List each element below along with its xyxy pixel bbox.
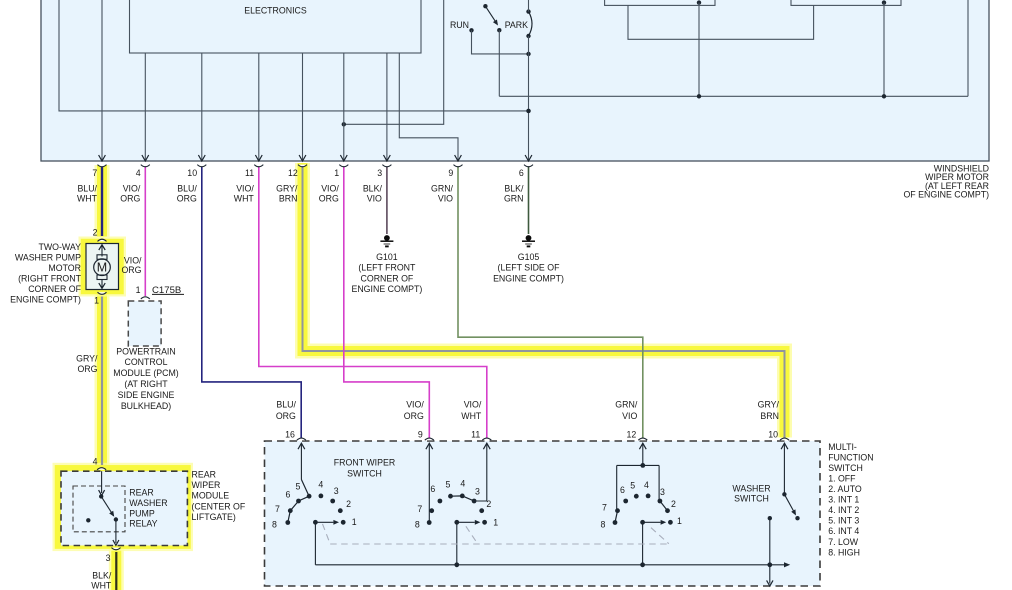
svg-text:4: 4 [136, 168, 141, 178]
svg-text:SWITCH: SWITCH [734, 494, 769, 504]
svg-text:ENGINE COMPT): ENGINE COMPT) [351, 284, 422, 294]
svg-text:SWITCH: SWITCH [347, 469, 382, 479]
svg-text:9: 9 [418, 429, 423, 439]
svg-text:VIO: VIO [438, 193, 453, 203]
svg-text:(LEFT SIDE OF: (LEFT SIDE OF [498, 263, 561, 273]
svg-text:WHT: WHT [234, 193, 255, 203]
svg-text:WASHER: WASHER [732, 483, 770, 493]
svg-text:OF ENGINE COMPT): OF ENGINE COMPT) [903, 190, 989, 200]
svg-text:BLK/: BLK/ [363, 184, 383, 194]
svg-text:VIO/: VIO/ [406, 400, 424, 410]
svg-text:6: 6 [286, 490, 291, 500]
svg-text:PUMP: PUMP [129, 508, 155, 518]
svg-text:7: 7 [275, 504, 280, 514]
svg-text:3: 3 [106, 553, 111, 563]
svg-text:8: 8 [272, 519, 277, 529]
svg-text:LIFTGATE): LIFTGATE) [192, 512, 236, 522]
svg-text:1: 1 [94, 295, 99, 305]
svg-text:1. OFF: 1. OFF [828, 473, 856, 483]
svg-text:10: 10 [768, 429, 778, 439]
svg-text:TWO-WAY: TWO-WAY [38, 242, 81, 252]
svg-text:CORNER OF: CORNER OF [361, 273, 414, 283]
svg-text:ORG: ORG [77, 364, 97, 374]
svg-text:RELAY: RELAY [129, 519, 157, 529]
svg-text:G105: G105 [518, 252, 540, 262]
svg-text:WASHER: WASHER [129, 498, 167, 508]
svg-text:3: 3 [475, 487, 480, 497]
svg-text:6. INT 4: 6. INT 4 [828, 526, 859, 536]
svg-text:6: 6 [430, 484, 435, 494]
svg-text:3. INT 1: 3. INT 1 [828, 495, 859, 505]
svg-text:8: 8 [415, 520, 420, 530]
svg-text:(RIGHT FRONT: (RIGHT FRONT [18, 273, 82, 283]
svg-text:VIO/: VIO/ [236, 184, 254, 194]
svg-text:7: 7 [417, 504, 422, 514]
svg-text:BLK/: BLK/ [504, 184, 524, 194]
svg-text:VIO/: VIO/ [124, 255, 142, 265]
svg-text:5: 5 [630, 480, 635, 490]
svg-text:5. INT 3: 5. INT 3 [828, 516, 859, 526]
svg-text:ORG: ORG [404, 411, 424, 421]
svg-text:2: 2 [93, 228, 98, 238]
svg-text:2: 2 [346, 499, 351, 509]
svg-text:10: 10 [187, 168, 197, 178]
svg-text:CORNER OF: CORNER OF [28, 284, 81, 294]
svg-text:3: 3 [377, 168, 382, 178]
svg-text:1: 1 [334, 168, 339, 178]
svg-text:ORG: ORG [177, 193, 197, 203]
svg-text:1: 1 [493, 518, 498, 528]
svg-text:GRY/: GRY/ [276, 184, 298, 194]
svg-text:8. HIGH: 8. HIGH [828, 547, 860, 557]
svg-text:WASHER PUMP: WASHER PUMP [15, 252, 81, 262]
svg-text:RUN: RUN [450, 20, 469, 30]
svg-text:2: 2 [671, 499, 676, 509]
svg-text:MOTOR: MOTOR [48, 263, 81, 273]
svg-text:1: 1 [136, 285, 141, 295]
svg-text:MODULE (PCM): MODULE (PCM) [113, 368, 179, 378]
svg-text:BULKHEAD): BULKHEAD) [121, 401, 171, 411]
svg-text:G101: G101 [376, 252, 398, 262]
svg-text:ORG: ORG [121, 265, 141, 275]
svg-text:3: 3 [334, 486, 339, 496]
svg-text:ELECTRONICS: ELECTRONICS [244, 6, 307, 16]
svg-text:7: 7 [602, 503, 607, 513]
svg-text:ENGINE COMPT): ENGINE COMPT) [10, 295, 81, 305]
svg-text:11: 11 [245, 168, 254, 178]
svg-text:SIDE ENGINE: SIDE ENGINE [118, 390, 175, 400]
svg-text:WHT: WHT [461, 411, 482, 421]
svg-text:12: 12 [288, 168, 298, 178]
svg-text:(AT RIGHT: (AT RIGHT [124, 379, 168, 389]
svg-text:GRY/: GRY/ [758, 400, 780, 410]
svg-text:2. AUTO: 2. AUTO [828, 484, 862, 494]
svg-text:VIO/: VIO/ [321, 184, 339, 194]
svg-text:WHT: WHT [91, 580, 112, 590]
svg-text:4: 4 [644, 480, 649, 490]
svg-text:4: 4 [93, 457, 98, 467]
svg-text:7: 7 [92, 168, 97, 178]
svg-text:ORG: ORG [276, 411, 296, 421]
svg-text:WHT: WHT [77, 193, 98, 203]
svg-text:16: 16 [285, 429, 295, 439]
svg-text:BLU/: BLU/ [77, 184, 97, 194]
svg-text:3: 3 [660, 487, 665, 497]
svg-text:4: 4 [460, 479, 465, 489]
svg-text:1: 1 [677, 516, 682, 526]
svg-text:REAR: REAR [192, 469, 216, 479]
svg-text:GRN/: GRN/ [615, 400, 638, 410]
svg-text:VIO: VIO [622, 411, 637, 421]
svg-text:POWERTRAIN: POWERTRAIN [116, 346, 175, 356]
svg-text:MODULE: MODULE [192, 491, 230, 501]
svg-text:ORG: ORG [319, 193, 339, 203]
svg-text:1: 1 [352, 517, 357, 527]
svg-text:WIPER: WIPER [192, 480, 221, 490]
svg-text:GRY/: GRY/ [76, 354, 98, 364]
svg-text:11: 11 [471, 429, 480, 439]
svg-text:BLK/: BLK/ [92, 570, 112, 580]
svg-text:6: 6 [519, 168, 524, 178]
svg-text:4: 4 [318, 479, 323, 489]
svg-text:SWITCH: SWITCH [828, 463, 863, 473]
svg-text:CONTROL: CONTROL [124, 357, 167, 367]
svg-text:GRN: GRN [504, 193, 524, 203]
svg-text:ORG: ORG [120, 193, 140, 203]
svg-text:FRONT WIPER: FRONT WIPER [334, 458, 395, 468]
svg-text:GRN/: GRN/ [431, 184, 454, 194]
svg-text:VIO/: VIO/ [123, 184, 141, 194]
svg-text:M: M [97, 261, 107, 275]
svg-text:PARK: PARK [505, 20, 528, 30]
svg-text:7. LOW: 7. LOW [828, 537, 859, 547]
svg-text:MULTI-: MULTI- [828, 442, 857, 452]
svg-text:9: 9 [448, 168, 453, 178]
svg-text:8: 8 [601, 520, 606, 530]
svg-text:5: 5 [296, 481, 301, 491]
svg-text:4. INT 2: 4. INT 2 [828, 505, 859, 515]
svg-text:(LEFT FRONT: (LEFT FRONT [358, 263, 416, 273]
svg-text:VIO/: VIO/ [464, 400, 482, 410]
svg-text:6: 6 [620, 485, 625, 495]
svg-text:ENGINE COMPT): ENGINE COMPT) [493, 273, 564, 283]
svg-text:12: 12 [627, 429, 637, 439]
svg-text:FUNCTION: FUNCTION [828, 452, 873, 462]
svg-text:BLU/: BLU/ [177, 184, 197, 194]
svg-text:(CENTER OF: (CENTER OF [192, 501, 246, 511]
svg-text:BRN: BRN [279, 193, 298, 203]
svg-text:REAR: REAR [129, 488, 153, 498]
svg-text:VIO: VIO [367, 193, 382, 203]
svg-text:BLU/: BLU/ [276, 400, 296, 410]
svg-text:BRN: BRN [760, 411, 779, 421]
svg-text:5: 5 [446, 480, 451, 490]
